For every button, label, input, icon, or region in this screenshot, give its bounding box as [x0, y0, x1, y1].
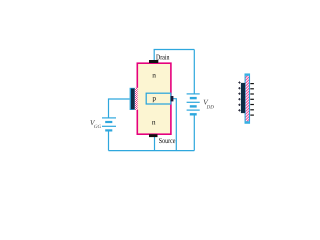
wire: p-region contact right then down to rail [173, 99, 176, 151]
drain contact bar [149, 60, 158, 63]
minus ions column [250, 84, 254, 116]
wire: bottom rail [109, 150, 195, 152]
depletion dark bar [241, 83, 245, 113]
wire: VGG top up and right to gate contact [109, 99, 130, 118]
plus ions column [238, 81, 240, 111]
battery VGG [102, 118, 116, 130]
battery VDD [187, 94, 200, 114]
svg-text:Drain: Drain [156, 52, 170, 61]
svg-text:Source: Source [159, 136, 176, 145]
p-region right contact [171, 96, 174, 101]
wire: right vertical down to VDD battery top [193, 50, 195, 94]
source contact bar [149, 134, 158, 137]
wire: VGG bottom to rail [108, 131, 110, 151]
svg-text:n: n [152, 117, 156, 126]
svg-text:n: n [152, 71, 156, 80]
gate metal contact (hatched + dark bar) on left edge [130, 88, 139, 110]
p gate region box [146, 93, 171, 104]
right-side junction detail: hatched metal strip [245, 74, 249, 123]
svg-text:p: p [152, 94, 156, 103]
transistor body (n-channel bar) [137, 63, 171, 134]
svg-text:GG: GG [94, 124, 102, 130]
wire: drain stub from top contact up [153, 50, 155, 62]
wire: source stub down to rail [154, 137, 156, 151]
svg-text:DD: DD [206, 104, 215, 110]
wire: top horizontal to VDD [154, 49, 195, 51]
wire: VDD battery bottom down to bottom rail [193, 114, 195, 150]
